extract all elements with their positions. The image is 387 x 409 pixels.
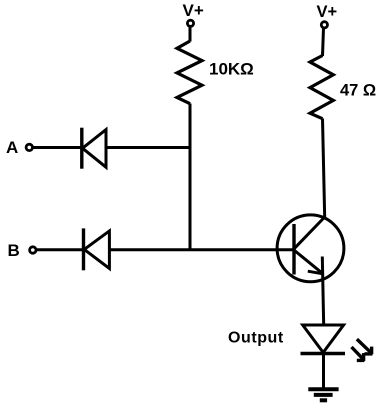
LED light emission arrow 1 xyxy=(357,339,373,354)
terminal V+ right xyxy=(321,22,327,28)
svg-text:Output: Output xyxy=(228,329,284,346)
wire A terminal to D1 cathode xyxy=(33,146,82,149)
resistor R2 xyxy=(310,56,333,119)
svg-text:V+: V+ xyxy=(317,3,338,21)
LED light emission arrow 2 xyxy=(352,347,365,361)
wire LED cathode to ground xyxy=(322,354,325,390)
resistor R1 xyxy=(177,41,202,104)
wire D1 anode to rail (junction node 1) xyxy=(106,146,191,149)
wire V+ right terminal to R2 top xyxy=(323,28,324,56)
LED D3 xyxy=(301,325,346,354)
terminal V+ left xyxy=(187,20,193,26)
ground xyxy=(308,389,338,400)
wire D2 anode through node B junction to Q1 base xyxy=(110,248,296,251)
wire V+ left terminal to R1 top xyxy=(189,27,192,42)
wire R1 bottom down the rail to node B junction xyxy=(189,104,192,251)
diode D1 xyxy=(82,128,106,169)
svg-text:V+: V+ xyxy=(183,1,204,20)
terminal input A xyxy=(26,144,32,150)
svg-text:47 Ω: 47 Ω xyxy=(340,81,376,99)
svg-text:A: A xyxy=(6,138,18,157)
terminal input B xyxy=(30,247,36,253)
transistor Q1 xyxy=(277,215,344,282)
wire R2 bottom to Q1 collector xyxy=(323,119,325,219)
wire B terminal to D2 cathode xyxy=(37,248,85,251)
svg-text:B: B xyxy=(8,241,20,260)
diode D2 xyxy=(84,228,110,270)
svg-text:10KΩ: 10KΩ xyxy=(209,60,254,79)
wire Q1 emitter (arrow shaft) down to LED anode xyxy=(322,257,323,326)
